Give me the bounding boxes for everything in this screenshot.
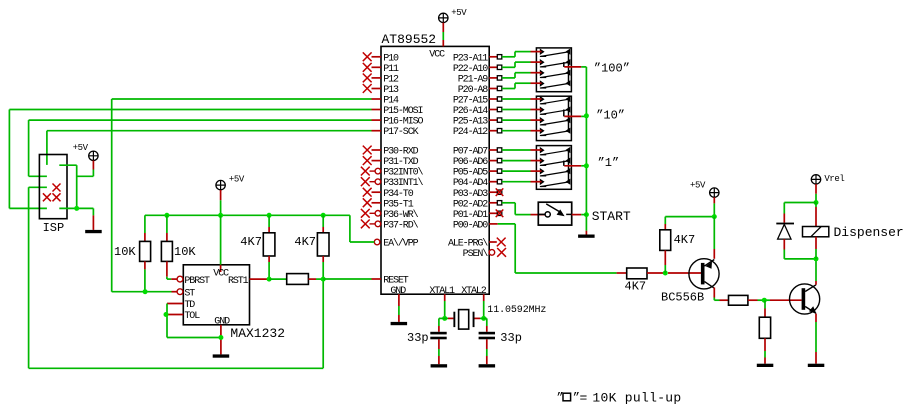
- transistor Q3 (NPN relay driver): [790, 284, 820, 314]
- power +5V symbol at Q2: [690, 181, 719, 217]
- pin P20-A8 (U1 right): [458, 85, 498, 96]
- junction bus at START output: [584, 212, 589, 217]
- svg-text:10K: 10K: [114, 245, 136, 259]
- connector ISP header body: [39, 155, 67, 235]
- svg-text:GND: GND: [214, 316, 230, 327]
- pin ALE-PRG\ (U1 right, no connect): [448, 238, 506, 250]
- note: "square" = 10K pull-up: [557, 391, 682, 406]
- pin P31-TXD (U1 left): [363, 156, 419, 168]
- wire R8 to Q3 base junction: [748, 298, 802, 303]
- pin P02-AD2 (U1 right): [453, 199, 497, 210]
- capacitor C1 33p: [430, 318, 446, 364]
- junction bus at S2 output: [584, 113, 589, 118]
- svg-text:P11: P11: [383, 64, 399, 75]
- label "100": [594, 62, 630, 76]
- svg-text:P05-AD5: P05-AD5: [453, 168, 488, 179]
- svg-text:P25-A13: P25-A13: [453, 117, 488, 128]
- pin P12 (U1 left): [363, 74, 399, 86]
- svg-text:P01-AD1: P01-AD1: [453, 210, 488, 221]
- wire XTAL1 down: [442, 294, 447, 321]
- power +5V symbol at MAX1232: [216, 175, 245, 216]
- switch bank S1 "100": [536, 48, 586, 92]
- junction bus at S3 output: [584, 163, 589, 168]
- svg-text:P31-TXD: P31-TXD: [383, 157, 418, 168]
- svg-text:33p: 33p: [407, 331, 429, 345]
- svg-text:=: =: [580, 391, 588, 406]
- power +5V symbol at ISP: [73, 143, 99, 176]
- label 10K for R1: [114, 245, 136, 259]
- resistor R4 4K7: [317, 215, 329, 279]
- svg-text:XTAL1: XTAL1: [429, 286, 455, 297]
- pull-up square on P06-AD6: [497, 158, 502, 162]
- pin P14 (U1 left): [372, 96, 400, 107]
- svg-text:TOL: TOL: [184, 311, 200, 322]
- svg-text:EA\/VPP: EA\/VPP: [383, 238, 418, 250]
- wire P16-MISO to ISP: [29, 120, 372, 176]
- diode D1 (flyback): [776, 223, 794, 259]
- svg-text:P12: P12: [383, 75, 399, 86]
- svg-text:START: START: [592, 209, 631, 224]
- junction RST1 with R3: [267, 277, 287, 282]
- IC U1 AT89S52 microcontroller body: [381, 32, 489, 294]
- resistor R1 10K: [140, 215, 151, 291]
- relay K1 coil: [803, 203, 829, 259]
- resistor R9 (base pulldown): [759, 300, 770, 364]
- svg-text:4K7: 4K7: [294, 235, 316, 249]
- svg-text:P23-A11: P23-A11: [453, 53, 488, 64]
- junction on rail at 10K R2: [164, 213, 169, 218]
- pull-up square on P02-AD2: [497, 201, 502, 205]
- svg-text:”100”: ”100”: [594, 62, 630, 76]
- label 10K for R2: [174, 245, 196, 259]
- ground at Q3 emitter: [808, 364, 825, 367]
- svg-text:VCC: VCC: [213, 269, 229, 280]
- svg-text:P24-A12: P24-A12: [453, 127, 488, 138]
- svg-text:33p: 33p: [500, 331, 522, 345]
- label 11.0592MHz: [487, 305, 546, 316]
- switch bank S3 "1": [536, 146, 586, 190]
- pin P36-WR\ (U1 left): [361, 209, 419, 221]
- svg-text:P20-A8: P20-A8: [458, 85, 489, 96]
- wire +5V rail: [145, 214, 350, 216]
- svg-text:P10: P10: [383, 53, 399, 64]
- wire P00 to base resistor R6: [498, 224, 627, 273]
- wire switch common bus to ground: [585, 67, 587, 235]
- wire rail to EA\/VPP: [350, 215, 374, 242]
- pin TD of U2: [167, 300, 195, 311]
- svg-text:P03-AD3: P03-AD3: [453, 189, 488, 200]
- pin P32INT0\ (U1 left): [361, 167, 424, 179]
- pin P25-A13 (U1 right): [453, 117, 497, 128]
- svg-text:P35-T1: P35-T1: [383, 199, 414, 210]
- pin TOL of U2: [167, 311, 200, 322]
- ground at switch bus: [578, 235, 595, 238]
- pin RST1 of U2: [228, 276, 267, 287]
- svg-text:ALE-PRG\: ALE-PRG\: [448, 238, 488, 250]
- switch bank S2 "10": [536, 96, 586, 141]
- svg-text:Dispenser: Dispenser: [834, 225, 904, 240]
- svg-text:P02-AD2: P02-AD2: [453, 199, 488, 210]
- svg-text:P33INT1\: P33INT1\: [383, 177, 423, 189]
- svg-text:RESET: RESET: [383, 276, 409, 287]
- ground at U2: [213, 354, 230, 357]
- junction on rail at VCC column: [218, 213, 223, 218]
- pin VCC label: [429, 49, 445, 60]
- wire R6 to Q2 base junction: [647, 271, 701, 276]
- wire XTAL2 down: [481, 294, 486, 321]
- pin EA\/VPP (U1 left, bubble): [374, 238, 418, 250]
- ground at C1: [431, 364, 448, 367]
- svg-text:P13: P13: [383, 85, 399, 96]
- ground at U1 GND: [391, 322, 408, 325]
- wire Q2 emitter to +5V: [713, 217, 715, 259]
- wire Q3 emitter to ground: [815, 314, 817, 364]
- svg-text:P37-RD\: P37-RD\: [383, 220, 418, 232]
- pin P34-T0 (U1 left): [363, 188, 414, 200]
- resistor R6 4K7 (base series): [627, 268, 647, 279]
- svg-text:P36-WR\: P36-WR\: [383, 209, 418, 221]
- svg-text:P07-AD7: P07-AD7: [453, 147, 488, 158]
- pin ST of U2 (bubble): [177, 288, 195, 299]
- label BC556B: [661, 290, 704, 304]
- power +5V symbol above U1 VCC: [439, 8, 468, 23]
- transistor Q2 BC556B (PNP): [689, 259, 719, 289]
- pull-up square on P04-AD4: [497, 180, 502, 184]
- svg-text:PBRST: PBRST: [184, 276, 210, 287]
- pin GND of U2: [214, 316, 230, 354]
- pin P10 (U1 left): [363, 52, 399, 64]
- pull-up square on P25-A13: [497, 118, 502, 122]
- resistor R3 4K7: [263, 215, 275, 279]
- pin XTAL2 label: [461, 286, 487, 297]
- wire +5V to U1 VCC pin: [442, 23, 444, 47]
- pull-up square on P24-A12: [497, 129, 502, 133]
- svg-text:VCC: VCC: [429, 49, 445, 60]
- power Vrel symbol: [811, 174, 844, 205]
- pin P06-AD6 (U1 right): [453, 157, 497, 168]
- pull-up square on P05-AD5: [497, 169, 502, 173]
- svg-text:+5V: +5V: [73, 143, 89, 153]
- pin P37-RD\ (U1 left): [361, 220, 419, 232]
- junction on rail at 4K7 R3: [267, 213, 272, 218]
- label 4K7 for R4: [294, 235, 316, 249]
- svg-text:+5V: +5V: [229, 175, 245, 185]
- pin P35-T1 (U1 left): [363, 198, 414, 210]
- svg-text:P17-SCK: P17-SCK: [383, 127, 418, 138]
- pin P15-MOSI (U1 left): [372, 106, 423, 117]
- svg-text:AT89552: AT89552: [382, 32, 437, 47]
- svg-text:10K pull-up: 10K pull-up: [592, 391, 681, 406]
- svg-text:P04-AD4: P04-AD4: [453, 178, 488, 189]
- svg-text:4K7: 4K7: [674, 233, 696, 247]
- wire P17-SCK to ISP: [47, 131, 372, 165]
- svg-text:4K7: 4K7: [625, 279, 647, 293]
- svg-text:P15-MOSI: P15-MOSI: [383, 106, 422, 117]
- svg-text:P27-A15: P27-A15: [453, 96, 488, 107]
- pull-up square on P22-A10: [497, 65, 502, 69]
- label "10": [596, 109, 625, 123]
- pin P27-A15 (U1 right): [453, 96, 497, 107]
- svg-text:Vrel: Vrel: [824, 174, 844, 184]
- wire diode bottom to Q3 collector: [784, 256, 818, 261]
- wire Q3 collector to relay: [815, 259, 817, 285]
- svg-text:4K7: 4K7: [240, 235, 262, 249]
- pin P03-AD3 (U1 right): [453, 189, 497, 200]
- pin VCC of U2: [213, 215, 229, 279]
- wire ISP reset pin to RESET net (bottom run): [29, 187, 324, 368]
- wire TD-TOL strap down to GND loop: [164, 304, 221, 338]
- wire Vrel to diode top: [784, 203, 816, 223]
- label "1": [598, 156, 620, 170]
- label START: [592, 209, 631, 224]
- wire +5V to pullup R7: [665, 214, 717, 219]
- svg-text:”10”: ”10”: [596, 109, 625, 123]
- svg-text:11.0592MHz: 11.0592MHz: [487, 305, 546, 316]
- pin PSEN\ (U1 right, bubble, no connect): [463, 248, 506, 260]
- label 33p for C1: [407, 331, 429, 345]
- pull-up square on P26-A14: [497, 107, 502, 111]
- svg-text:MAX1232: MAX1232: [230, 326, 285, 341]
- wire P02 to START switch: [502, 203, 545, 215]
- svg-text:”1”: ”1”: [598, 156, 620, 170]
- ground at ISP: [85, 230, 102, 233]
- svg-text:P22-A10: P22-A10: [453, 64, 488, 75]
- pin PBRST of U2 (bubble): [177, 276, 210, 287]
- ISP right pin row1 to +5V: [59, 165, 93, 208]
- wire Q2 collector to R8: [714, 288, 728, 301]
- pin P30-RXD (U1 left): [363, 146, 419, 158]
- wire P14 to MAX1232 ST: [112, 99, 372, 292]
- wire R5 to RESET pin: [308, 277, 371, 282]
- svg-text:P14: P14: [383, 96, 399, 107]
- ISP right pin row5 to ground: [59, 206, 93, 230]
- pin P24-A12 (U1 right): [453, 127, 497, 138]
- svg-text:P16-MISO: P16-MISO: [383, 117, 423, 128]
- pull-up square on P01-AD1: [496, 210, 504, 218]
- pin P16-MISO (U1 left): [372, 117, 424, 128]
- pin P05-AD5 (U1 right): [453, 168, 497, 179]
- pull-up square on P03-AD3: [496, 188, 504, 196]
- resistor R5 (series reset): [287, 274, 309, 285]
- svg-text:TD: TD: [184, 300, 195, 311]
- svg-text:+5V: +5V: [451, 8, 467, 18]
- pin P22-A10 (U1 right): [453, 64, 497, 75]
- pull-up square on P27-A15: [497, 97, 502, 101]
- svg-text:10K: 10K: [174, 245, 196, 259]
- svg-text:ISP: ISP: [43, 221, 65, 235]
- capacitor C2 33p: [479, 318, 495, 364]
- svg-text:BC556B: BC556B: [661, 290, 704, 304]
- pin P23-A11 (U1 right): [453, 53, 497, 64]
- pin GND wire of U1 to ground: [398, 294, 400, 322]
- svg-text:PSEN\: PSEN\: [463, 248, 489, 260]
- switch S4 START: [538, 202, 586, 225]
- label 4K7 for R3: [240, 235, 262, 249]
- pin GND label (U1 bottom): [390, 286, 406, 297]
- watchdog U2 MAX1232 body: [183, 265, 285, 341]
- pin P13 (U1 left): [363, 84, 399, 96]
- svg-text:+5V: +5V: [690, 181, 706, 191]
- resistor R8 (Q3 base series): [729, 295, 748, 305]
- ground at C2: [479, 364, 496, 367]
- label 33p for C2: [500, 331, 522, 345]
- wire P15-MOSI to ISP: [9, 110, 371, 209]
- svg-text:P26-A14: P26-A14: [453, 106, 488, 117]
- svg-text:P06-AD6: P06-AD6: [453, 157, 488, 168]
- svg-text:RST1: RST1: [228, 276, 249, 287]
- pin P21-A9 (U1 right): [458, 75, 498, 86]
- svg-text:P30-RXD: P30-RXD: [383, 147, 418, 158]
- pin P11 (U1 left): [363, 63, 399, 75]
- junction on rail at 4K7 R4: [321, 213, 326, 218]
- pull-up square on P21-A9: [497, 76, 502, 80]
- wires P23..P20 into bank S1: [502, 52, 542, 89]
- pin RESET (U1 left): [372, 276, 409, 287]
- svg-text:P00-AD0: P00-AD0: [453, 221, 488, 232]
- pin P00-AD0 (U1 right): [453, 221, 498, 232]
- label 4K7 for R6: [625, 279, 647, 293]
- pull-up square on P23-A11: [497, 55, 502, 59]
- pin P04-AD4 (U1 right): [453, 178, 497, 189]
- pin P17-SCK (U1 left): [372, 127, 419, 138]
- label Dispenser: [834, 225, 904, 240]
- ISP unconnected pin marks: [43, 184, 61, 202]
- resistor R7 4K7 (pull-up): [660, 217, 671, 273]
- pull-up square on P07-AD7: [497, 148, 502, 152]
- svg-text:P34-T0: P34-T0: [383, 189, 414, 200]
- svg-text:P21-A9: P21-A9: [458, 75, 489, 86]
- wires P07..P04 into bank S3: [502, 150, 542, 182]
- wire P14 net into ST: [112, 289, 177, 294]
- crystal Q1 11.0592MHz: [439, 310, 487, 330]
- pin P01-AD1 (U1 right): [453, 210, 497, 221]
- pin P07-AD7 (U1 right): [453, 147, 497, 158]
- pin P33INT1\ (U1 left): [361, 177, 424, 189]
- label 4K7 for R7: [674, 233, 696, 247]
- wires P27..P24 into bank S2: [502, 99, 542, 131]
- svg-text:ST: ST: [184, 288, 195, 299]
- svg-text:P32INT0\: P32INT0\: [383, 167, 423, 179]
- pin XTAL1 label: [429, 286, 455, 297]
- pull-up square on P20-A8: [497, 86, 502, 90]
- resistor R2 10K: [161, 215, 177, 279]
- pin P26-A14 (U1 right): [453, 106, 497, 117]
- ground at R9: [757, 364, 774, 367]
